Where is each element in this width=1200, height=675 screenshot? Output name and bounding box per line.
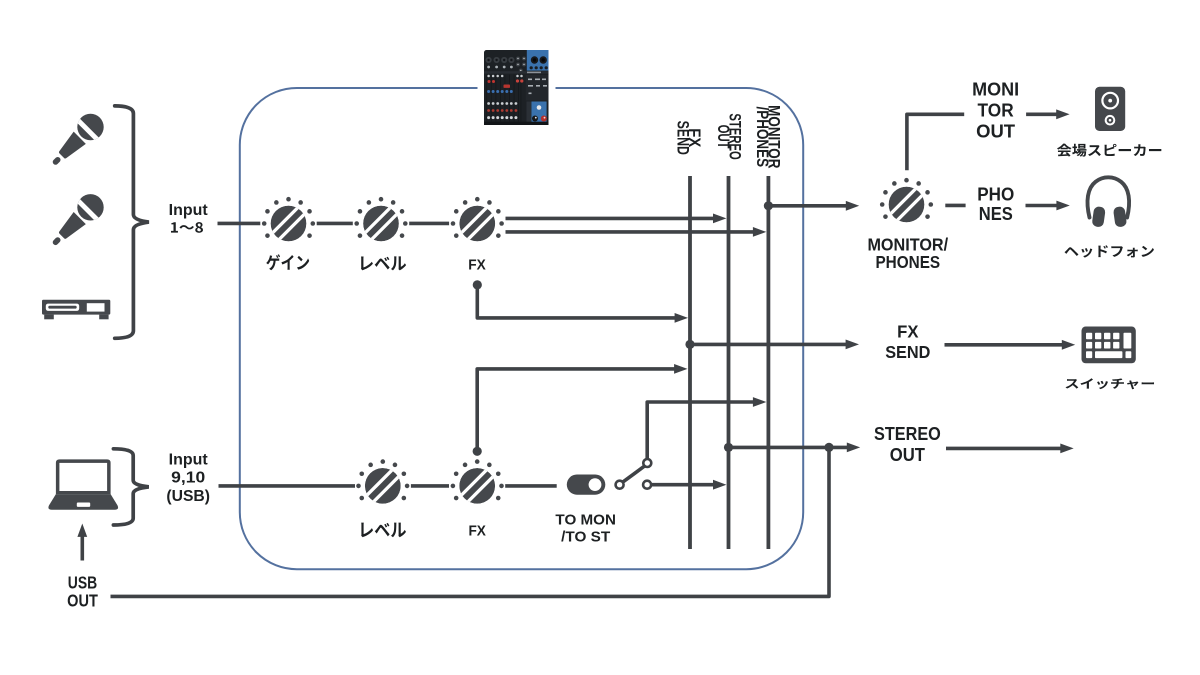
label STEREO OUT	[874, 423, 941, 465]
knob FX bottom	[451, 459, 504, 505]
junction stereo/usb	[824, 443, 833, 452]
wire ST contact to stereo bus	[652, 480, 727, 490]
wire stereo out arrow	[829, 443, 860, 453]
switch ST contact	[643, 481, 651, 489]
svg-text:/TO ST: /TO ST	[561, 529, 610, 545]
svg-text:OUT: OUT	[67, 591, 98, 611]
wire MON contact to monitor bus	[647, 397, 766, 459]
svg-text:OUT: OUT	[976, 121, 1016, 142]
CD player icon	[42, 300, 110, 320]
svg-text:Input: Input	[169, 452, 208, 469]
svg-text:STEREO: STEREO	[874, 423, 941, 444]
label FX SEND out	[885, 321, 930, 362]
junction fx bus	[685, 340, 694, 349]
svg-text:TOR: TOR	[978, 100, 1015, 121]
wire fx to toggle	[505, 484, 557, 488]
svg-text:FX: FX	[897, 321, 919, 341]
wire usb return down-left	[111, 447, 830, 596]
switch blade	[623, 466, 645, 482]
label Input 9,10 (USB)	[166, 452, 210, 505]
knob LEVEL bottom (レベル)	[356, 459, 409, 505]
wire fx send out	[690, 340, 859, 350]
bus STEREO OUT	[727, 176, 731, 549]
bus FX SEND	[688, 176, 692, 549]
label FX top	[468, 257, 486, 274]
label FX SEND (rotated)	[674, 121, 704, 156]
svg-text:PHO: PHO	[977, 184, 1014, 205]
arrow stereo out	[946, 444, 1074, 454]
label ゲイン	[266, 254, 309, 270]
svg-text:(USB): (USB)	[166, 488, 210, 505]
label レベル bottom	[361, 523, 406, 538]
junction stereo bus	[724, 443, 733, 452]
keyboard/switcher icon スイッチャー	[1082, 327, 1136, 364]
microphone icon 1	[43, 107, 110, 174]
junction monitor bus	[764, 201, 773, 210]
svg-text:PHONES: PHONES	[875, 252, 940, 272]
svg-text:SEND: SEND	[885, 342, 930, 362]
label MONITOR/PHONES (rotated)	[753, 105, 784, 168]
svg-text:Input: Input	[169, 202, 208, 219]
wire fx to monitor bus	[506, 227, 767, 237]
wire monitor bus to knob	[768, 201, 859, 211]
label PHO NES	[977, 184, 1014, 225]
svg-text:MONITOR/PHONES: MONITOR/PHONES	[753, 105, 784, 168]
switch pole contact	[616, 481, 624, 489]
label Input 1~8	[169, 202, 208, 219]
svg-text:FX: FX	[468, 522, 486, 539]
label レベル top	[361, 256, 406, 270]
switch MON contact	[643, 459, 651, 467]
speaker icon 会場スピーカー	[1095, 87, 1125, 131]
label 1~8 numerals	[171, 222, 203, 233]
input bracket 9,10	[113, 449, 148, 525]
svg-text:FX: FX	[468, 257, 486, 274]
wire stereo out	[729, 446, 830, 450]
bus MONITOR/PHONES	[767, 176, 771, 549]
wire level to fx	[409, 222, 449, 226]
svg-text:NES: NES	[979, 203, 1013, 224]
label ヘッドフォン	[1065, 245, 1154, 257]
wire fx-send branch bottom	[477, 364, 687, 451]
arrow fx send to switcher	[945, 340, 1076, 350]
laptop icon	[48, 459, 118, 509]
wire knob up to monitor out	[907, 114, 964, 170]
wire usb out up-arrow to laptop	[77, 524, 87, 561]
svg-text:TO MON: TO MON	[555, 512, 616, 528]
mixer photo (Yamaha MG10XU)	[478, 46, 556, 129]
label TO MON /TO ST	[555, 512, 616, 545]
label USB OUT	[67, 573, 98, 611]
toggle switch TO MON/TO ST	[567, 475, 606, 495]
junction below FX top knob	[473, 280, 482, 289]
svg-text:OUT: OUT	[890, 444, 926, 465]
label MONITOR/PHONES	[867, 235, 948, 272]
svg-text:9,10: 9,10	[171, 470, 205, 487]
knob MONITOR/PHONES	[880, 178, 933, 224]
wire input to gain	[218, 222, 261, 226]
label FX bottom	[468, 522, 486, 539]
microphone icon 2	[43, 187, 110, 254]
knob GAIN (ゲイン)	[262, 197, 315, 243]
label スイッチャー	[1066, 378, 1155, 389]
arrow monitor out to speaker	[1026, 109, 1070, 119]
wire fx to stereo bus	[506, 214, 727, 224]
knob LEVEL top (レベル)	[354, 197, 407, 243]
mixer boundary box (blue rounded rect)	[240, 88, 803, 569]
svg-text:MONI: MONI	[972, 79, 1019, 100]
knob FX top	[451, 197, 504, 243]
junction above FX bottom knob	[473, 447, 482, 456]
wire knob to phones	[945, 204, 965, 208]
label MONI TOR OUT	[972, 79, 1019, 142]
wire level to fx bottom	[411, 484, 449, 488]
headphones icon ヘッドフォン	[1088, 177, 1130, 227]
input bracket 1~8	[115, 106, 149, 338]
wire fx-send branch top	[477, 285, 688, 323]
label STEREO OUT (rotated)	[714, 113, 743, 160]
wire input 9,10 to level	[219, 484, 356, 488]
wire gain to level	[317, 222, 353, 226]
arrow phones to headphones	[1026, 201, 1070, 211]
label 会場スピーカー	[1057, 144, 1161, 157]
